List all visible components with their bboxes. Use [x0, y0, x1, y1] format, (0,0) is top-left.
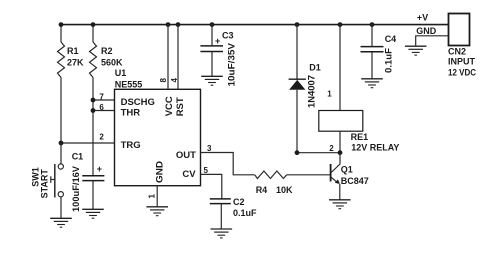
ground CN2 — [405, 46, 427, 55]
node junction dot D1 bottom — [295, 150, 300, 155]
ground Q1 emitter — [329, 200, 351, 209]
svg-text:560K: 560K — [101, 58, 123, 68]
svg-text:NE555: NE555 — [115, 79, 143, 89]
capacitor C2 — [210, 198, 231, 200]
svg-text:0.1uF: 0.1uF — [233, 208, 257, 218]
capacitor C3 — [211, 24, 213, 46]
svg-text:10K: 10K — [276, 185, 293, 195]
wire pin6 stub — [93, 110, 115, 112]
ground pin1 — [146, 207, 168, 216]
wire pin7 stub — [93, 99, 115, 101]
svg-text:THR: THR — [121, 108, 141, 119]
wire R2 bottom lead / THR net down to C1 — [92, 78, 94, 176]
resistor R4 — [255, 171, 287, 179]
svg-text:C1: C1 — [72, 151, 84, 161]
svg-text:3: 3 — [207, 144, 212, 153]
node junction dots THR/DSCHG — [91, 98, 96, 113]
svg-text:7: 7 — [99, 93, 104, 102]
svg-text:1: 1 — [147, 194, 156, 199]
wire D1 anode lead down to collector net — [296, 90, 298, 153]
ground SW1 — [50, 218, 72, 227]
svg-text:12 VDC: 12 VDC — [448, 68, 476, 78]
capacitor C1 — [82, 175, 104, 177]
svg-text:DSCHG: DSCHG — [121, 97, 155, 108]
svg-text:2: 2 — [329, 144, 334, 153]
svg-text:START: START — [39, 169, 49, 199]
svg-text:D1: D1 — [309, 62, 321, 72]
wire OUT pin3 net — [201, 153, 255, 175]
ground C2 — [211, 229, 233, 238]
svg-text:10uF/35V: 10uF/35V — [227, 43, 237, 86]
wire +V top rail — [61, 24, 449, 26]
svg-text:27K: 27K — [67, 58, 84, 68]
svg-text:U1: U1 — [115, 68, 127, 78]
svg-text:Q1: Q1 — [341, 165, 353, 175]
svg-text:1: 1 — [327, 89, 332, 98]
ground C1 — [82, 209, 104, 218]
svg-text:12V RELAY: 12V RELAY — [351, 143, 399, 153]
resistor R1 27K — [58, 42, 65, 78]
svg-text:R1: R1 — [67, 46, 79, 56]
wire relay coil pin2 to collector net — [339, 131, 341, 153]
capacitor C4 — [371, 24, 373, 47]
wire pin8 VCC — [167, 24, 169, 89]
svg-text:8: 8 — [159, 78, 168, 83]
wire D1 cathode lead from +V rail — [296, 24, 298, 80]
wire relay to Q1 collector net — [297, 152, 340, 154]
svg-text:GND: GND — [416, 26, 437, 36]
svg-text:INPUT: INPUT — [448, 57, 476, 67]
wire R1 top lead — [60, 24, 62, 42]
wire R1 bottom lead to TRG node — [60, 78, 62, 144]
svg-text:BC847: BC847 — [341, 176, 369, 186]
svg-text:CV: CV — [182, 169, 196, 180]
wire relay coil pin1 from +V rail — [339, 24, 341, 111]
transistor Q1 BC847 — [330, 164, 332, 182]
svg-text:2: 2 — [99, 133, 104, 142]
svg-text:+: + — [97, 164, 102, 174]
svg-text:VCC: VCC — [164, 96, 175, 116]
wire TRG net (pin2) — [61, 142, 115, 144]
svg-text:R2: R2 — [101, 46, 113, 56]
ground C3 — [201, 76, 223, 85]
svg-text:0.1uF: 0.1uF — [384, 47, 394, 73]
svg-text:RE1: RE1 — [351, 132, 369, 142]
svg-text:OUT: OUT — [176, 150, 196, 161]
svg-text:GND: GND — [155, 161, 166, 183]
svg-text:R4: R4 — [256, 185, 268, 195]
svg-text:6: 6 — [99, 103, 104, 112]
wire pin4 RST — [177, 24, 179, 89]
svg-text:1N4007: 1N4007 — [307, 75, 317, 108]
svg-text:RST: RST — [175, 97, 186, 116]
svg-text:CN2: CN2 — [448, 47, 466, 57]
wire CV pin5 net — [201, 174, 222, 199]
node junction dot TRG — [59, 141, 64, 146]
switch SW1 — [60, 143, 62, 164]
ground C4 — [361, 79, 383, 88]
node junction dots top rail — [59, 22, 375, 27]
resistor R2 560K — [90, 42, 97, 78]
wire CN2 GND — [416, 36, 449, 46]
svg-text:C2: C2 — [233, 197, 245, 207]
svg-text:100uF/16V: 100uF/16V — [71, 166, 81, 212]
connector CN2 — [449, 14, 470, 46]
IC U1 NE555 timer box — [115, 89, 201, 185]
svg-text:TRG: TRG — [121, 140, 141, 151]
node junction dot relay pin2 — [338, 150, 343, 155]
svg-text:C3: C3 — [222, 31, 234, 41]
wire pin1 GND — [156, 186, 158, 207]
diode D1 1N4007 — [289, 78, 306, 80]
relay RE1 12V RELAY coil box — [319, 111, 363, 132]
svg-text:C4: C4 — [385, 34, 397, 44]
svg-text:+V: +V — [417, 13, 428, 23]
svg-text:+: + — [215, 36, 220, 46]
wire R2 top lead — [92, 24, 94, 42]
